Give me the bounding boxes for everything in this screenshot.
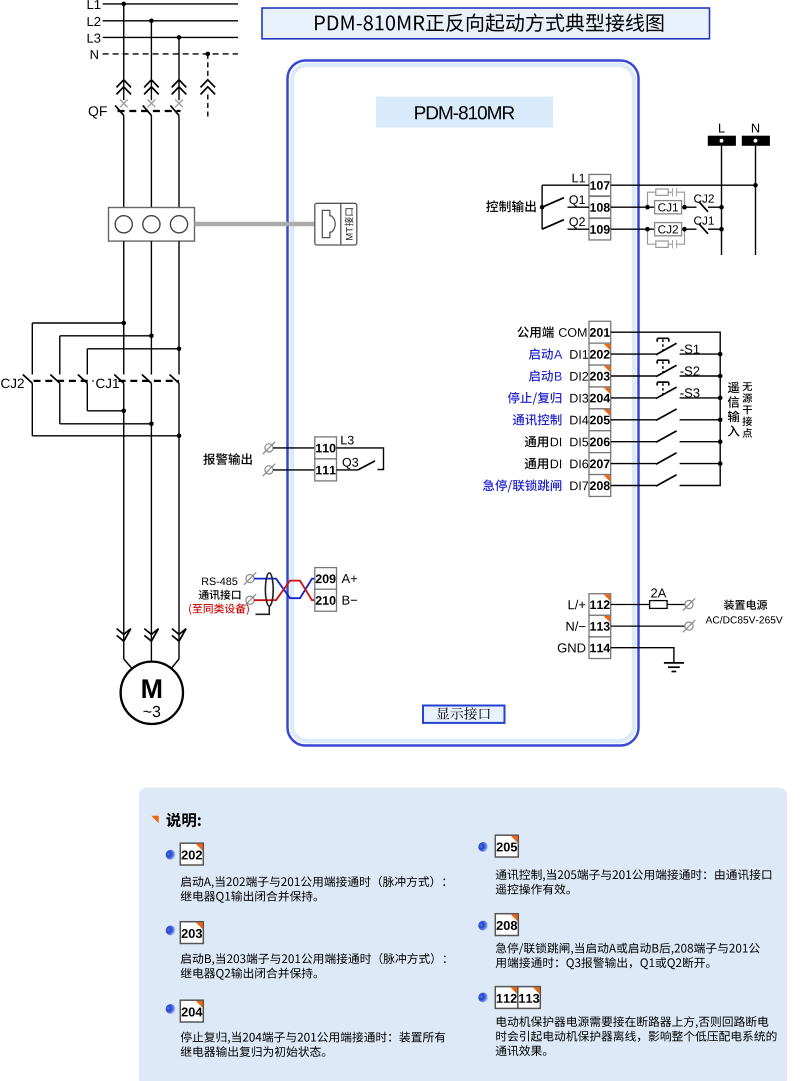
note item 202 text [181,876,446,888]
note item 113 number box [518,987,541,1009]
CJ2 pole1 lower wire [31,383,33,436]
node L2 tap [149,19,154,24]
L1 supply line [103,3,238,5]
relay coil CJ2 box [655,223,682,236]
A+ label [342,574,358,583]
note item 204 text [181,1032,446,1044]
terminal 205 box [589,409,611,431]
switch S4 blade [656,409,677,420]
QF label [89,106,107,118]
terminal 114 box [589,637,611,659]
wire stud to 110 [273,447,315,449]
phase C drop wire [178,37,180,100]
QF pole B blade [143,105,152,115]
dry contact label (vertical) [742,382,752,437]
terminal 206 box [589,431,611,453]
relay Q2 label [569,217,585,228]
terminal L stud [720,139,724,143]
node CJ2-A junction [121,409,126,414]
shield drain wire [256,606,270,614]
wire 107 row [542,184,589,186]
CJ2 branch wire from L2 [60,335,152,337]
CT block body [109,208,195,242]
drawout connector phase B [144,80,159,95]
terminal 202 number [590,350,610,359]
node bus junction DI3 [718,396,723,401]
note item 112/113 bullet [478,993,488,1003]
CT phase A window [115,216,132,233]
drawout connector N [201,80,216,95]
wire DI3 from terminal [611,397,657,399]
L bus wire [721,146,723,255]
node CJ2-L1 junction [121,321,126,326]
CJ2 branch wire from L1 [32,322,123,324]
terminal N block [742,136,770,146]
terminal 113 number [590,622,609,631]
pushbutton label -S1 [680,345,699,354]
drawout connector phase C [172,80,187,95]
pushbutton actuator -S1 [657,338,669,351]
terminal 203 number [590,372,610,381]
phase A drop wire [123,4,125,100]
wire DI6 from terminal [611,463,657,465]
note item 112/113 text [497,1016,769,1028]
wire 108 to interlock [611,206,697,208]
terminal 210 box [315,589,337,611]
terminal 203 orange flag [604,366,610,372]
terminal 107 number [590,181,609,190]
motor connector phase A [117,629,131,642]
QF pole A blade [115,105,124,115]
contactor linkage left (dashed) [34,380,94,382]
N/- label [567,621,586,631]
note item 205 number box [495,835,518,857]
phase C wire QF to CT [178,115,180,207]
snubber capacitor C2 [673,240,677,248]
phase A motor lead [124,659,132,668]
terminal 110 box [315,437,337,459]
DI label 203 [570,372,588,381]
wire 107 to N bus [611,184,756,186]
switch S3 blade [656,387,677,398]
wire interlock CJ2 to L bus [708,206,722,208]
DI label 204 [570,394,588,403]
motor ~3 label [143,706,160,717]
interlock contact CJ1 blade [699,224,708,234]
contactor linkage right (dashed) [119,380,180,382]
note item 208 bullet [478,921,488,931]
note item 112 number box [495,987,518,1009]
terminal 208 box [589,475,611,497]
relay coil CJ2 text [658,225,678,233]
N drop tail (dashed) [207,95,209,119]
twisted pair wire B- (red) [254,581,315,601]
alarm L3 label [341,436,353,445]
terminal 109 box [589,218,611,240]
alarm stud bottom [263,464,275,476]
terminal N label [752,124,759,133]
node 107-N junction [753,183,758,188]
L3 label [88,34,101,43]
CJ1 pole B blade [142,375,152,384]
cable shield ellipse [265,573,273,606]
CJ2 pole2 lower wire [59,383,61,424]
wire 112 to fuse [611,604,650,606]
terminal N stud [754,139,758,143]
N supply line (dashed) [103,53,238,55]
CJ1 pole A blade [114,375,124,384]
CJ2 pole1 upper wire [31,323,33,375]
same-device label (red) [189,603,249,614]
CJ2 pole1 blade [23,375,33,384]
alarm stud top [263,442,275,454]
ground symbol [664,663,684,672]
wire Q2 to 109 [568,228,590,230]
RS-485 label [202,578,237,586]
terminal 204 number [590,394,610,403]
switch blade Q2 [542,220,564,230]
RS-485 stud A [244,572,256,584]
switch S6 blade [656,453,677,464]
wire switch to bus (DI1) [680,353,721,355]
pushbutton label -S3 [680,388,699,397]
terminal L block [708,136,736,146]
CJ2 pole3 upper wire [86,349,88,375]
terminal 201 number [590,328,610,337]
node L3 tap [177,35,182,40]
device model label box [376,97,553,128]
interlock contact CJ2 blade [699,202,708,212]
node N tap [206,52,211,57]
motor M circle [121,662,183,724]
device enclosure PDM-810MR outer border [288,61,639,746]
power stud L [683,598,695,610]
CJ1 label (contactor) [96,379,119,389]
device power voltage label [706,616,783,624]
terminal L label [719,124,725,133]
interlock contact CJ1 label [694,216,714,224]
CT phase C window [170,216,187,233]
title text PDM-810MR typical forward/reverse starting wiring diagram [315,13,663,32]
wire 109 to interlock [611,228,697,230]
switch blade Q1 [542,198,564,208]
terminal 112 orange flag [604,594,610,600]
L3 supply line [103,36,238,38]
motor connector phase C [172,629,186,642]
terminal 111 number [316,466,336,475]
node snubber left (row109) [645,227,650,232]
CJ2 pole3 lower wire [86,383,88,411]
terminal 208 orange flag [604,475,610,481]
terminal 210 number [316,596,336,605]
alarm Q3 contact blade [358,461,375,470]
display port box [423,706,505,723]
snubber RC branch (row 108) [648,192,685,207]
phase B drop wire [150,21,152,100]
wire COM to bus [611,332,721,485]
device enclosure inner light band [292,65,634,741]
terminal 207 box [589,453,611,475]
comm port label [199,590,241,600]
note item 202 bullet [166,850,176,860]
node snubber left (row108) [645,205,650,210]
phase A wire CJ1 to motor [123,383,125,659]
node L1 tap [121,2,126,7]
fuse F1 2A label [651,588,666,597]
notes header text [166,813,200,828]
terminal 204 orange flag [604,388,610,394]
wire DI5 from terminal [611,441,657,443]
terminal 205 orange flag [604,410,610,416]
alarm L3 hook wire [337,448,384,470]
MT connector label (vertical) [345,208,354,240]
terminal 114 number [558,643,586,652]
N drop wire (dashed) [207,54,209,80]
wire 114 to ground [611,648,674,663]
terminal 111 box [315,459,337,481]
QF pole C x-mark [175,100,183,108]
note item 205 text [496,869,771,881]
wire DI7 from terminal [611,485,657,487]
terminal 206 number [590,438,610,447]
wire fuse to stud [667,604,685,606]
terminal 113 box [589,615,611,637]
twisted pair wire A+ (blue) [254,579,315,599]
relay L1 label [573,174,585,183]
switch S5 blade [656,431,677,442]
QF pole B x-mark [148,100,156,108]
MT connector RJ45 icon [322,210,335,237]
MT connector box [315,203,357,245]
alarm Q3 label [343,458,359,469]
pushbutton label -S2 [680,366,699,375]
wire DI2 from terminal [611,375,657,377]
terminal 112 box [589,594,611,616]
control output label [486,200,536,212]
wire DI4 from terminal [611,419,657,421]
alarm output label [203,453,251,465]
wire switch to bus (DI5) [680,441,721,443]
fuse F1 body [650,601,668,609]
node bus junction DI6 [718,461,723,466]
terminal 207 number [590,459,610,468]
display port text [437,707,490,720]
CJ2 pole2 blade [50,375,60,384]
phase A wire QF to CT [123,115,125,207]
node CJ2-L3 junction [177,347,182,352]
CJ2 pole3 blade [78,375,88,384]
QF linkage (dashed) [118,110,181,112]
control output bracket wire [541,185,543,229]
terminal 110 number [316,444,335,453]
switch S1 blade [656,343,677,354]
CJ2 branch wire to phase A [87,410,123,412]
switch S7 blade [656,475,677,486]
terminal 205 number [590,416,610,425]
MT cable (gray) [195,222,316,227]
DI label 202 [570,350,588,359]
phase B wire CT to CJ1 [150,241,152,374]
wire switch to bus (DI2) [680,375,721,377]
note item 203 number box [180,922,203,944]
control output common node [540,205,545,210]
node snubber right (row109) [682,227,687,232]
node CJ2-L2 junction [149,334,154,339]
CJ2 pole2 upper wire [59,336,61,375]
L1 label [88,0,101,9]
phase C wire CJ1 to motor [178,383,180,659]
drawout connector phase A [116,80,131,95]
CJ1 pole C blade [170,375,180,384]
note item 205 bullet [478,842,488,852]
node snubber right (row108) [682,205,687,210]
node bus junction DI1 [718,352,723,357]
node CJ2-C junction [177,434,182,439]
DI label 201 [559,328,587,337]
notes panel background [139,788,787,1081]
CJ2 branch wire to phase C [32,435,179,437]
motor M letter [142,679,161,698]
wire switch to bus (DI4) [680,419,721,421]
phase A wire CT to CJ1 [123,241,125,374]
CJ2 label (contactor) [1,379,24,389]
power stud N [683,620,695,632]
node CJ2-B junction [149,422,154,427]
phase B wire QF to CT [150,115,152,207]
terminal 208 number [590,481,610,490]
snubber capacitor C1 [673,188,677,196]
phase C motor lead [172,659,180,668]
relay Q1 label [569,195,585,206]
switch S2 blade [656,365,677,376]
wire Q1 to 108 [568,206,590,208]
DI label 205 [570,416,588,425]
wire interlock CJ1 to L bus [708,228,722,230]
snubber resistor R2 [656,241,668,247]
snubber RC branch (row 109) [648,229,685,244]
wire 113 to stud [611,625,685,627]
terminal 202 box [589,343,611,365]
node bus junction DI4 [718,418,723,423]
terminal 107 box [589,174,611,196]
wire stud to 111 [273,469,315,471]
note item 204 number box [180,1000,203,1022]
DI label 208 [570,482,588,491]
remote signal input label (vertical) [728,382,740,437]
QF pole A x-mark [120,100,128,108]
node bus junction DI5 [718,439,723,444]
terminal 203 box [589,365,611,387]
terminal 201 box [589,321,611,343]
terminal 109 number [590,225,609,234]
node CJ2-Lbus junction [719,205,724,210]
L2 supply line [103,20,238,22]
terminal 204 box [589,387,611,409]
QF pole C blade [170,105,179,115]
note item 208 text [496,943,760,955]
relay coil CJ1 text [658,203,678,211]
N label [91,50,98,59]
DI label 207 [570,460,588,469]
note item 204 bullet [166,1004,176,1014]
snubber resistor R1 [656,189,668,195]
terminal 202 orange flag [604,344,610,350]
alarm Q3 wire [337,469,359,471]
wire DI1 from terminal [611,353,657,355]
terminal 209 number [316,574,336,583]
RS-485 stud B [244,594,256,606]
wire switch to bus (DI3) [680,397,721,399]
L2 label [88,17,101,26]
note item 202 number box [180,843,203,865]
B- label [343,596,358,605]
CJ2 branch wire from L3 [87,348,179,350]
notes header marker [151,816,158,823]
device power label [724,600,767,610]
device model label text [415,106,514,120]
terminal 113 orange flag [604,616,610,622]
CT phase B window [143,216,160,233]
pushbutton actuator -S3 [657,382,669,395]
terminal 108 number [590,203,610,212]
wire switch to bus (DI6) [680,463,721,465]
terminal 209 box [315,568,337,590]
pushbutton actuator -S2 [657,360,669,373]
terminal 112 number [590,600,609,609]
node bus junction DI2 [718,374,723,379]
node CJ1-Lbus junction [719,227,724,232]
MT connector divider [340,203,342,245]
interlock contact CJ2 label [694,194,714,202]
note item 203 bullet [166,926,176,936]
motor connector phase B [144,629,158,642]
note item 203 text [181,953,446,965]
title box [262,8,710,39]
phase C wire CT to CJ1 [178,241,180,374]
N bus wire [755,146,757,255]
DI label 206 [570,438,588,447]
L/+ label [569,600,586,610]
note item 208 number box [495,914,518,936]
CJ2 branch wire to phase B [60,423,152,425]
relay coil CJ1 box [655,201,682,214]
terminal 108 box [589,196,611,218]
phase B wire CJ1 to motor [150,383,152,661]
